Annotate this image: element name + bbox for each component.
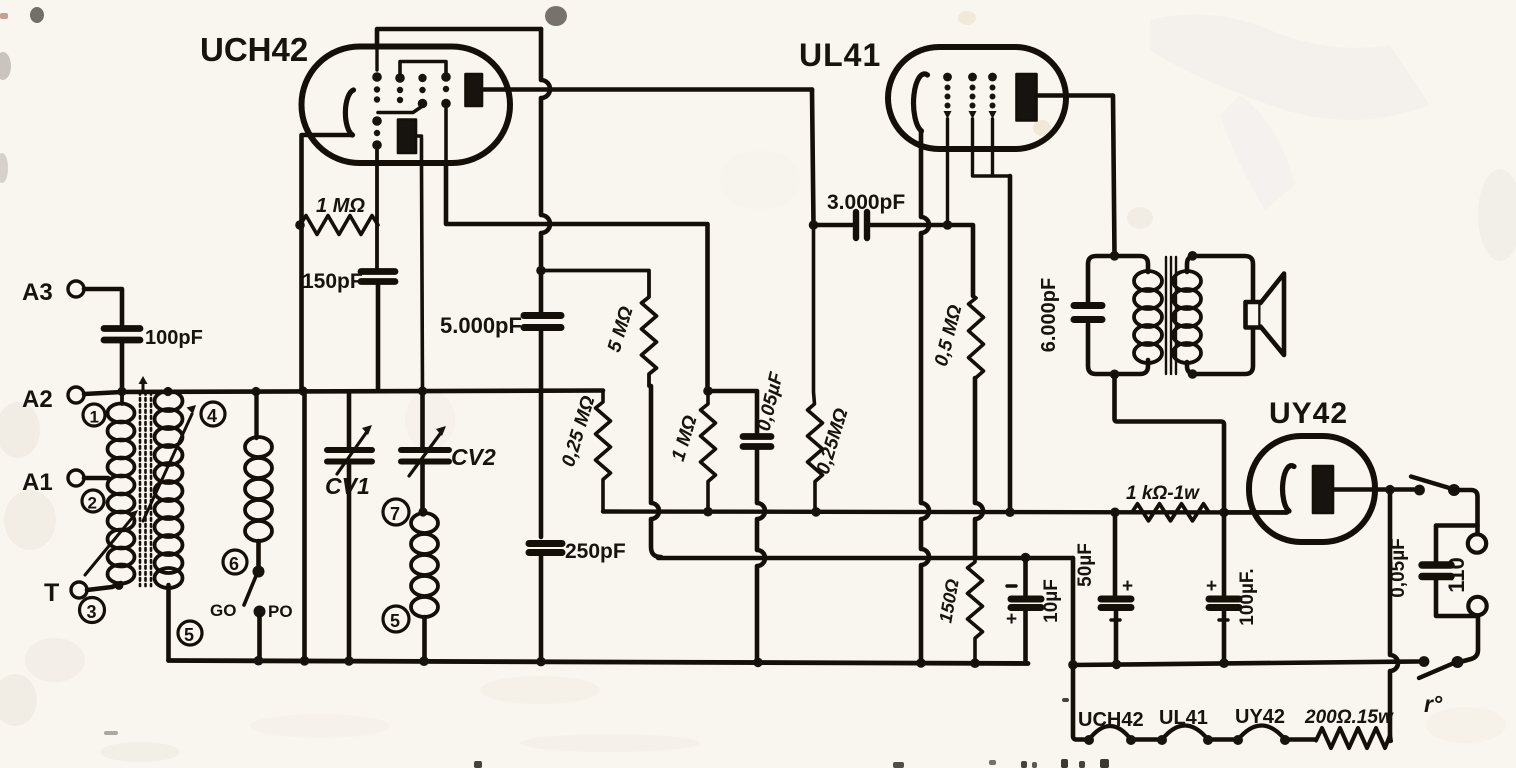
plug pin 2 — [1468, 597, 1486, 615]
junction dot x541 y270.5 — [536, 266, 546, 276]
svg-text:200Ω.15w: 200Ω.15w — [1304, 707, 1394, 728]
UCH42 triode grid bar — [378, 107, 421, 113]
UL41 anode wire — [1037, 96, 1115, 256]
node 6 — [223, 550, 247, 574]
svg-text:5: 5 — [390, 611, 400, 631]
wire transformer bottom to HT rail — [1115, 374, 1225, 512]
core arrow — [142, 382, 145, 390]
svg-text:6: 6 — [229, 554, 239, 574]
bottom switch — [1419, 656, 1464, 678]
junction dots secondary — [1188, 251, 1198, 379]
svg-text:100pF: 100pF — [145, 327, 203, 349]
capacitor 6.000pF (tone) — [1038, 278, 1102, 352]
UCH42 screen bracket — [400, 62, 446, 75]
svg-text:1 kΩ-1w: 1 kΩ-1w — [1126, 483, 1200, 504]
capacitor 100uF electrolytic — [1206, 512, 1258, 664]
wire triode anode down (to CV2 line) — [422, 138, 423, 391]
UCH42 triode anode — [398, 120, 416, 154]
svg-text:r°: r° — [1424, 691, 1443, 717]
variable capacitor CV1 — [325, 392, 372, 660]
svg-text:1 MΩ: 1 MΩ — [316, 195, 365, 217]
switch GO/PO — [210, 566, 293, 622]
UL41 cathode wire down (hops) — [921, 131, 929, 663]
wire grid bus — [122, 391, 603, 393]
junction dot UL41 grid — [943, 220, 953, 230]
antenna transformer secondary — [155, 391, 183, 588]
terminal A2 — [22, 386, 84, 413]
svg-text:0,25MΩ: 0,25MΩ — [813, 406, 853, 477]
svg-text:5.000pF: 5.000pF — [440, 313, 522, 338]
UY42 anode wire to mains node — [1333, 487, 1414, 492]
svg-text:CV1: CV1 — [325, 473, 370, 499]
tube UY42 envelope — [1249, 436, 1375, 542]
UY42 cathode — [1283, 466, 1294, 511]
svg-text:0,25 MΩ: 0,25 MΩ — [558, 393, 599, 469]
UCH42 grid column 3 — [418, 74, 428, 108]
wire g4 line (detector) — [446, 163, 708, 391]
resistor 0,25MΩ (second) — [808, 225, 853, 512]
caption fragments at bottom edge — [0, 13, 1109, 768]
capacitor 100pF — [104, 327, 203, 391]
ground bus (left) — [169, 661, 1029, 664]
UCH42 hexode anode — [466, 74, 483, 106]
svg-text:UL41: UL41 — [1159, 707, 1208, 729]
svg-text:150pF: 150pF — [302, 270, 363, 293]
svg-text:3: 3 — [87, 602, 97, 622]
UL41 screen wires — [973, 119, 1011, 176]
junction dot 3.000pF node — [809, 220, 819, 230]
capacitor 0,05uF (mains) — [1388, 526, 1478, 617]
capacitor 50uF electrolytic — [1075, 512, 1133, 664]
UCH42 grid column g1 top wire — [375, 47, 378, 71]
wire tank coil to ground bus — [422, 617, 427, 661]
wire 3.000pF node to 0,5M corner — [946, 225, 973, 296]
capacitor 3.000pF — [814, 191, 947, 238]
svg-text:+: + — [1206, 576, 1217, 597]
junction dots ground bus — [254, 656, 980, 668]
capacitor 0,05uF — [743, 369, 788, 662]
heater junction dots — [1084, 735, 1290, 745]
svg-text:250pF: 250pF — [565, 540, 626, 563]
vertical x541 with hops — [541, 29, 550, 266]
wire A2 to grid bus — [84, 392, 122, 394]
antenna transformer primary — [108, 392, 135, 584]
UCH42 cathode tail wire — [302, 135, 353, 661]
wire to 0,05uF top — [708, 391, 757, 433]
UL41 grid column 3 — [988, 73, 997, 119]
wire anode line down to 3.000pF node — [812, 90, 814, 226]
UL41 control grid wire — [946, 119, 949, 225]
svg-text:UCH42: UCH42 — [1078, 709, 1144, 731]
top bus wire — [377, 29, 541, 47]
capacitor 150pF — [302, 270, 395, 391]
svg-text:150Ω: 150Ω — [935, 578, 962, 625]
node 2 — [82, 490, 104, 513]
svg-text:A3: A3 — [22, 279, 53, 306]
resistor 0,25MΩ (first) — [558, 391, 610, 512]
node 5 (left) — [178, 621, 202, 645]
svg-text:+: + — [1006, 609, 1017, 630]
secondary frame — [1187, 256, 1253, 374]
heater wire — [1208, 737, 1238, 742]
wire plug pin 2 down to bottom switch — [1460, 616, 1478, 662]
heater chain wire — [1073, 665, 1089, 740]
resistor 150Ω — [935, 558, 982, 664]
UL41 anode — [1017, 74, 1037, 121]
heater wire — [1131, 737, 1162, 742]
node 7 — [383, 499, 409, 525]
UCH42 grid column 1 — [372, 72, 382, 103]
svg-text:1: 1 — [90, 408, 99, 427]
UCH42 grid column 2 — [395, 73, 405, 103]
coil 7 (tank) — [411, 507, 438, 617]
svg-text:50µF: 50µF — [1075, 543, 1096, 587]
svg-text:CV2: CV2 — [451, 444, 496, 470]
svg-text:UY42: UY42 — [1235, 706, 1285, 728]
svg-text:0,5 MΩ: 0,5 MΩ — [931, 303, 967, 369]
svg-text:5 MΩ: 5 MΩ — [604, 304, 638, 355]
UL41 grid column 1 — [943, 73, 952, 119]
heater UY42 filament — [1238, 726, 1285, 740]
svg-text:10µF: 10µF — [1041, 579, 1062, 623]
svg-text:6.000pF: 6.000pF — [1038, 278, 1060, 352]
svg-text:100µF.: 100µF. — [1237, 568, 1258, 625]
svg-text:7: 7 — [390, 504, 400, 524]
UY42 anode — [1313, 466, 1333, 513]
wire lower grid col down to 150pF — [375, 150, 379, 268]
wire A1 tap — [84, 476, 108, 481]
svg-text:T: T — [44, 579, 59, 607]
transformer primary coil — [1134, 271, 1162, 363]
wire secondary bottom to ground bus — [166, 585, 171, 661]
UCH42 lower grid column — [372, 116, 382, 150]
transformer core — [1166, 257, 1176, 374]
junction dots on grid bus — [117, 386, 427, 396]
svg-text:A2: A2 — [22, 386, 53, 413]
wire T to primary bottom — [87, 583, 121, 590]
heater UCH42 filament — [1089, 726, 1131, 740]
resistor 0,5MΩ — [931, 296, 984, 378]
heater feed from mains node (hops right bus) — [1390, 490, 1398, 741]
plug pin 1 — [1468, 534, 1486, 552]
svg-text:5: 5 — [184, 625, 194, 645]
resistor 200Ω-15w (dropper) — [1316, 728, 1391, 748]
junction dot 1M top — [703, 386, 713, 396]
resistor 1MΩ (triode grid leak) — [295, 195, 378, 235]
HT rail (bus A) — [603, 512, 1287, 513]
terminal T — [44, 579, 87, 607]
oscillator coil — [245, 392, 272, 541]
heater wire — [1285, 737, 1316, 742]
cathode rail (bus B) — [658, 556, 1073, 560]
svg-text:+: + — [1122, 576, 1133, 597]
UCH42 triode anode stub — [416, 134, 422, 138]
svg-text:PO: PO — [268, 602, 293, 621]
node 3 — [80, 598, 105, 623]
junction dot mains node — [1385, 485, 1395, 495]
capacitor 10uF electrolytic — [1006, 558, 1062, 664]
junction dots HT rail — [703, 507, 1229, 517]
speaker — [1246, 274, 1285, 356]
svg-text:A1: A1 — [22, 469, 53, 496]
tuning arrow secondary to node 4 — [143, 414, 192, 521]
svg-text:3.000pF: 3.000pF — [827, 191, 905, 214]
transformer core (dotted) — [140, 392, 151, 586]
bottom bus (right) — [1071, 662, 1418, 666]
node 4 — [201, 402, 225, 426]
UL41 grid column 2 — [968, 73, 977, 119]
heater UL41 filament — [1162, 726, 1208, 740]
terminal A1 — [22, 469, 84, 496]
capacitor 250pF — [529, 540, 626, 661]
svg-text:GO: GO — [210, 601, 236, 620]
UCH42 hexode anode wire — [482, 87, 812, 92]
wire g4 down to detector line — [444, 109, 448, 163]
UCH42 cathode — [345, 90, 353, 135]
wire switch to plug pin 1 — [1454, 490, 1478, 534]
svg-text:4: 4 — [207, 406, 217, 426]
variable capacitor CV2 — [401, 391, 496, 510]
wire PO contact to ground bus — [257, 616, 262, 661]
resistor 5MΩ — [541, 271, 657, 387]
transformer secondary coil — [1173, 271, 1201, 363]
svg-text:2: 2 — [88, 494, 97, 513]
svg-text:UL41: UL41 — [799, 37, 881, 73]
svg-text:UCH42: UCH42 — [200, 31, 308, 68]
primary frame — [1088, 256, 1148, 302]
UL41 screen feed down to HT rail — [1008, 176, 1013, 512]
capacitor 5.000pF — [440, 271, 561, 538]
tube UCH42 envelope — [302, 47, 511, 164]
resistor 1kΩ-1w (in HT rail) — [1126, 483, 1210, 521]
junction dots right bus — [1068, 658, 1229, 669]
wire osc coil to switch pole — [256, 541, 261, 566]
junction dots transformer primary — [1110, 251, 1120, 379]
junction dot 10uF top — [1021, 553, 1031, 563]
cathode rail corner down to right bus — [1071, 558, 1076, 664]
resistor 1MΩ (diode load) — [668, 391, 716, 512]
mains switch (top) — [1411, 477, 1460, 497]
wire 5M bottom to AVC rail (hops HT rail) — [651, 386, 661, 557]
UL41 cathode — [914, 74, 928, 131]
wire A3 to 100pF — [84, 289, 122, 325]
svg-text:UY42: UY42 — [1269, 397, 1348, 430]
node 5 (tank) — [383, 606, 409, 632]
svg-text:1 MΩ: 1 MΩ — [668, 413, 702, 464]
node 1 — [83, 404, 105, 427]
UY42 cathode feed from HT rail — [1224, 510, 1287, 515]
tuning arrow primary — [85, 518, 132, 575]
terminal A3 — [22, 279, 84, 306]
wire 0,5M bottom to cathode rail (hops HT rail) — [975, 378, 983, 558]
output transformer T1 — [1088, 256, 1148, 374]
UCH42 grid column 4 — [441, 72, 451, 108]
tube UL41 envelope — [888, 47, 1066, 149]
